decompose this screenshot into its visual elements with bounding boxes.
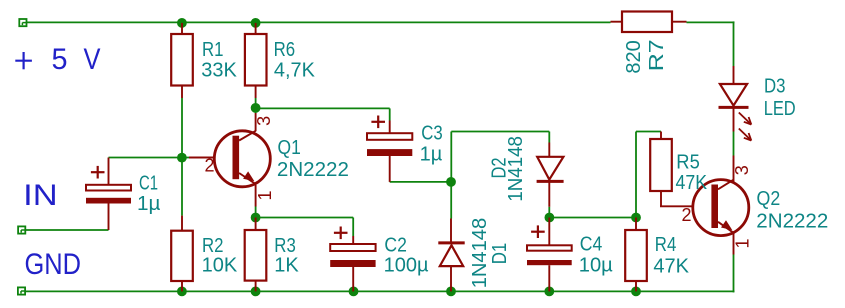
svg-text:IN: IN xyxy=(23,179,58,212)
svg-text:R7: R7 xyxy=(646,39,668,71)
svg-text:R6: R6 xyxy=(274,39,296,61)
svg-text:2N2222: 2N2222 xyxy=(756,211,828,233)
svg-text:R1: R1 xyxy=(202,39,224,61)
svg-text:Q1: Q1 xyxy=(278,137,301,159)
svg-text:47K: 47K xyxy=(653,255,689,277)
svg-text:V: V xyxy=(84,43,101,76)
svg-text:GND: GND xyxy=(25,248,82,281)
svg-text:1: 1 xyxy=(255,190,275,200)
svg-text:1µ: 1µ xyxy=(137,193,161,215)
svg-text:10K: 10K xyxy=(202,255,238,277)
svg-text:1N4148: 1N4148 xyxy=(469,218,491,289)
svg-text:3: 3 xyxy=(732,165,752,175)
svg-text:1µ: 1µ xyxy=(420,143,443,165)
svg-text:2: 2 xyxy=(205,156,215,176)
svg-text:R2: R2 xyxy=(202,235,224,257)
svg-text:820: 820 xyxy=(623,40,645,73)
svg-text:2: 2 xyxy=(682,205,692,225)
svg-text:33K: 33K xyxy=(201,59,237,81)
svg-text:1N4148: 1N4148 xyxy=(505,136,527,202)
svg-text:C1: C1 xyxy=(139,173,158,195)
svg-text:2N2222: 2N2222 xyxy=(277,159,349,181)
svg-text:47K: 47K xyxy=(676,172,708,194)
svg-text:C2: C2 xyxy=(384,235,407,257)
svg-text:1K: 1K xyxy=(274,255,299,277)
svg-text:C4: C4 xyxy=(580,233,603,255)
svg-text:D1: D1 xyxy=(489,243,511,265)
svg-text:R5: R5 xyxy=(676,151,700,173)
svg-text:3: 3 xyxy=(254,116,274,126)
svg-text:100µ: 100µ xyxy=(384,254,429,276)
svg-text:C3: C3 xyxy=(421,123,443,145)
svg-text:LED: LED xyxy=(764,98,796,120)
svg-text:10µ: 10µ xyxy=(579,254,613,276)
svg-text:R4: R4 xyxy=(655,234,677,256)
svg-text:Q2: Q2 xyxy=(757,188,781,210)
svg-text:R3: R3 xyxy=(274,235,296,257)
svg-text:1: 1 xyxy=(732,238,752,248)
svg-text:4,7K: 4,7K xyxy=(274,59,316,81)
svg-text:5: 5 xyxy=(52,43,68,76)
svg-text:D3: D3 xyxy=(764,75,786,97)
